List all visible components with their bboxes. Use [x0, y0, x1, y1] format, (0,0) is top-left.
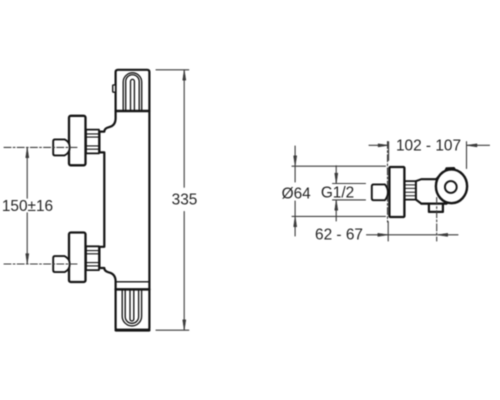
bottom box U slot outer [122, 289, 141, 326]
valve head tab [445, 168, 456, 172]
outlet centerline [436, 198, 438, 242]
dimension 62-67 [367, 222, 459, 242]
clip tab on top box [113, 85, 116, 92]
outlet fitting [429, 204, 443, 212]
upper adapter nut [86, 130, 99, 154]
label 150±16 [2, 198, 53, 215]
dimension Ø64 [292, 146, 386, 236]
svg-text:102 - 107: 102 - 107 [396, 138, 461, 155]
dimension 102-107 [369, 142, 490, 169]
joint line above bottom box [116, 281, 150, 283]
label Ø64 [282, 185, 312, 202]
label 102-107 [396, 138, 461, 155]
joint line top box bottom [116, 110, 150, 112]
svg-text:Ø64: Ø64 [282, 185, 312, 202]
bottom box U slot middle [125, 289, 138, 323]
side view cylinder and cone [416, 172, 447, 204]
bottom box bottom edge [116, 329, 149, 332]
lower handle disc [69, 233, 86, 283]
side view flange [389, 167, 404, 217]
top box U slot middle [126, 75, 140, 111]
joint line bottom box top [116, 288, 150, 291]
cylinder bottom line [421, 203, 446, 205]
bottom box U slot inner [130, 289, 134, 321]
top box U slot inner [131, 79, 135, 111]
side view adapter thread G1/2 [404, 181, 416, 200]
dimension G1/2 [333, 166, 366, 221]
upper handle end cap [53, 139, 70, 155]
label G1/2 [321, 184, 354, 201]
svg-text:G1/2: G1/2 [321, 184, 354, 201]
svg-text:150±16: 150±16 [2, 198, 53, 215]
label 335 [172, 191, 198, 208]
upper handle disc [69, 116, 86, 166]
svg-text:62 - 67: 62 - 67 [315, 226, 363, 243]
lower handle end cap [53, 256, 70, 272]
label 62-67 [315, 226, 363, 243]
lower inlet centerline [4, 263, 79, 265]
valve head inner circle [445, 181, 457, 193]
lower adapter nut [86, 246, 99, 270]
svg-text:335: 335 [172, 191, 198, 208]
side view handle cap [372, 184, 388, 200]
dimension 335 [156, 70, 189, 330]
top box U slot outer [123, 73, 142, 111]
dimension 150±16 [26, 147, 29, 264]
body front view outline [99, 70, 149, 330]
valve head circle [436, 169, 467, 203]
upper inlet centerline [4, 146, 79, 148]
side view wall centerline [387, 142, 389, 223]
